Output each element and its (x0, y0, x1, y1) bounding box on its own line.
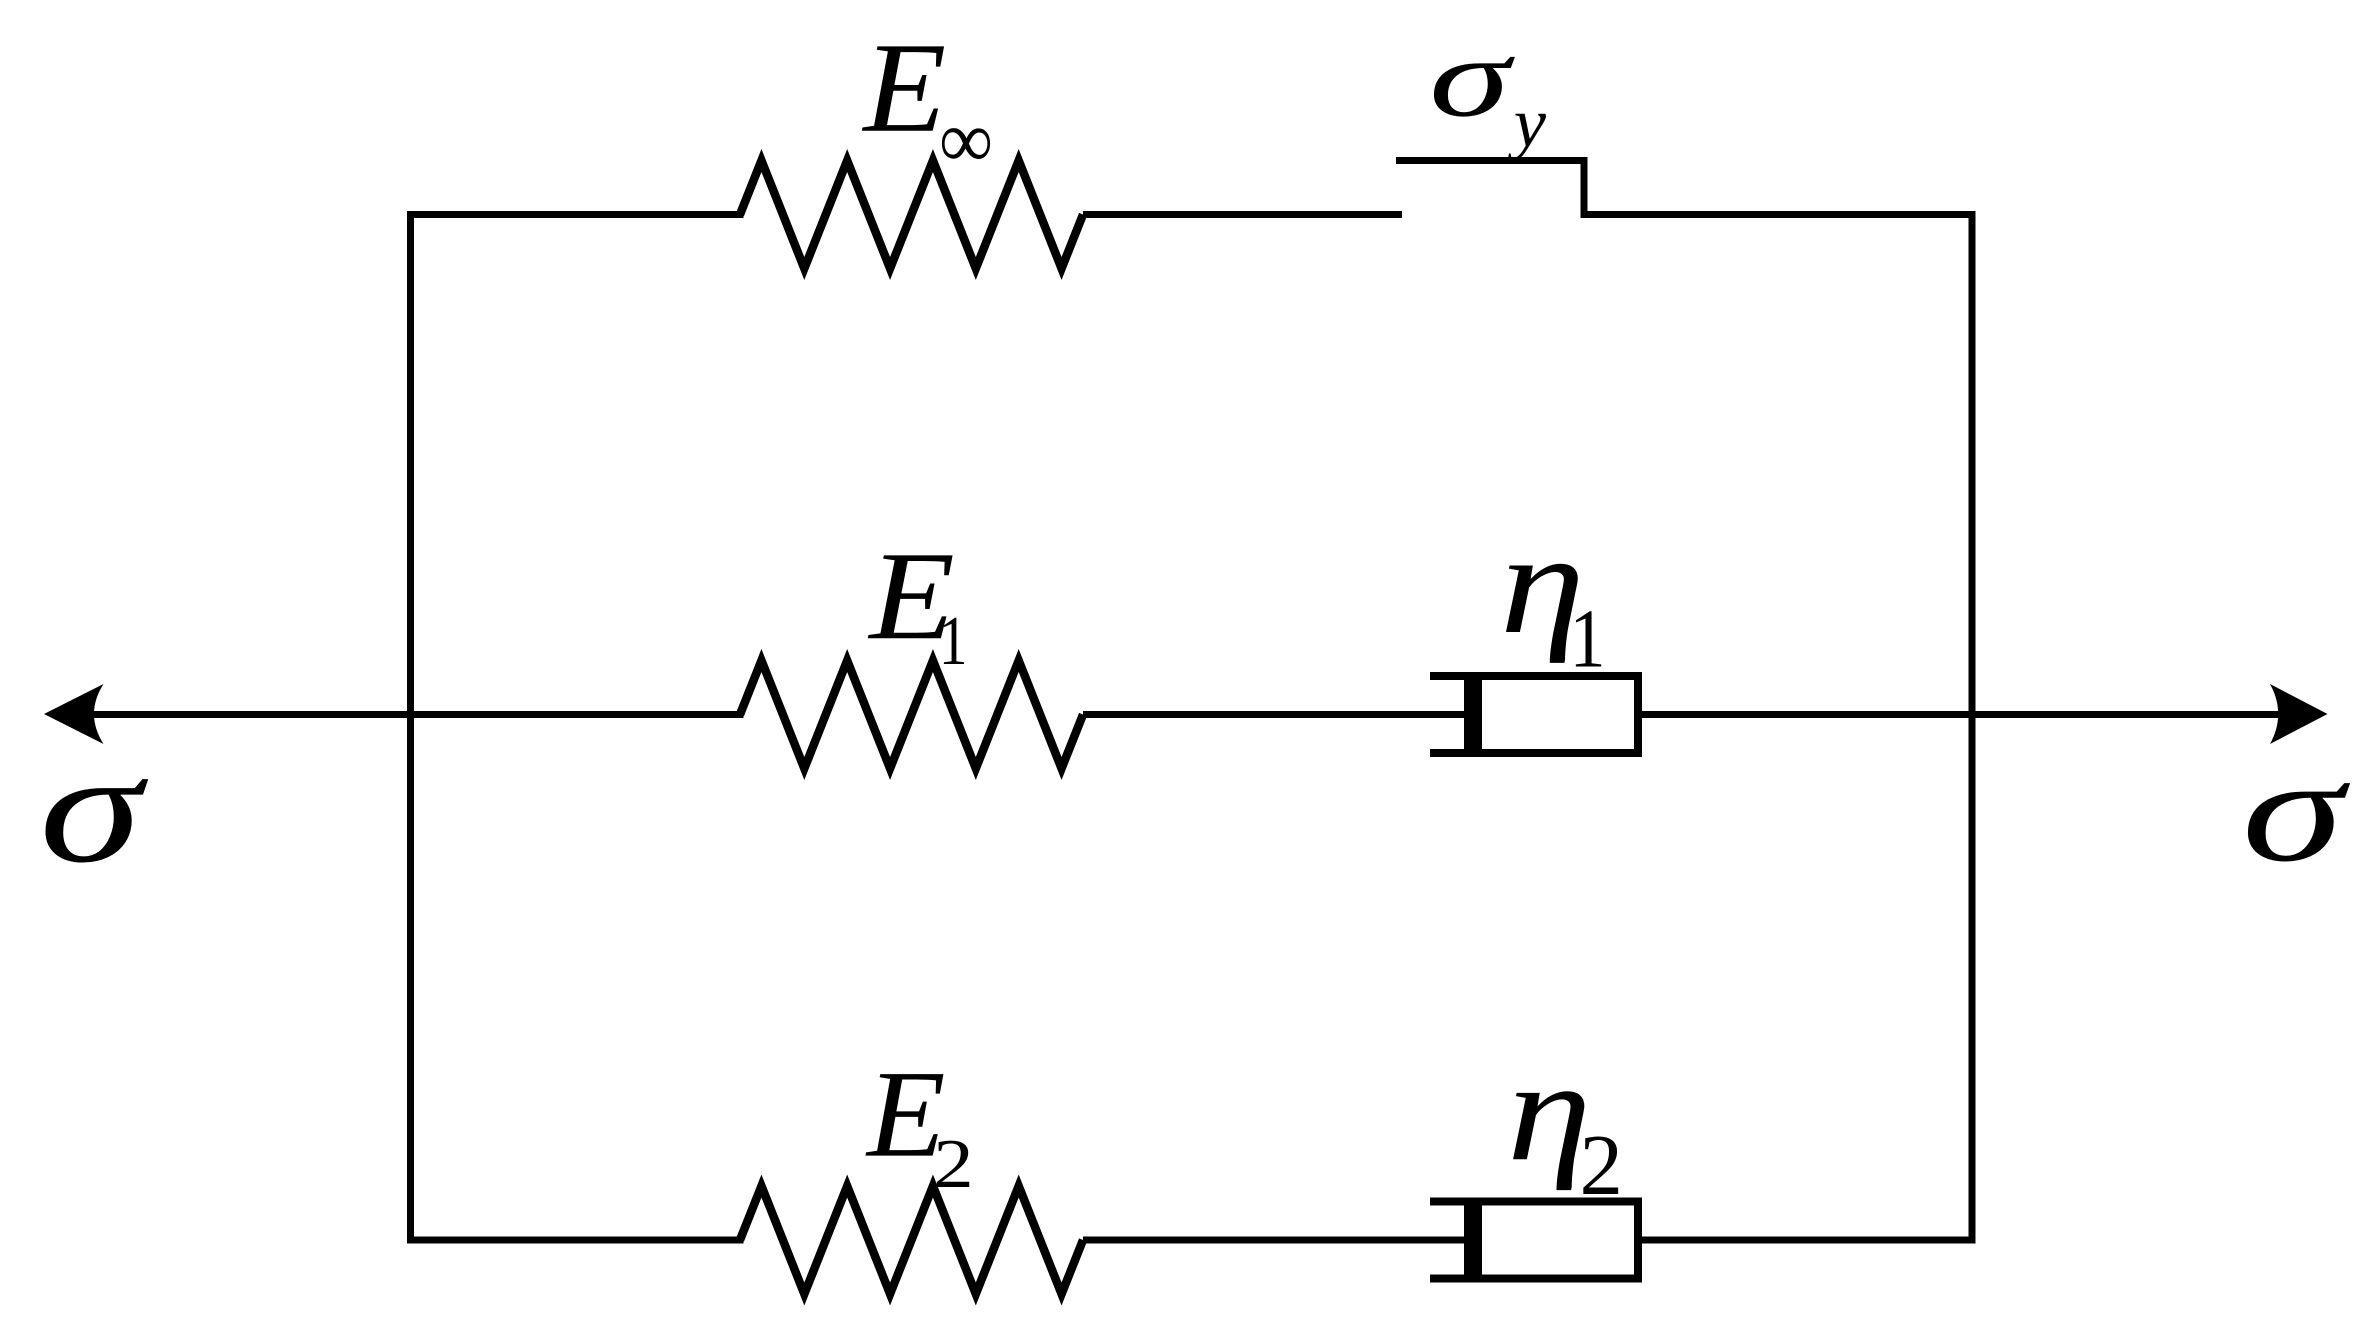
svg-text:σ: σ (1429, 15, 1515, 140)
wire: left vertical rail (407, 211, 414, 1244)
label E1: E (867, 525, 955, 665)
svg-text:2: 2 (1580, 1117, 1623, 1213)
svg-text:1: 1 (1570, 592, 1606, 685)
wire: top branch segment from spring to slider (1083, 211, 1402, 218)
label E-infinity: infinity subscript (940, 95, 992, 185)
wire: bottom branch piston rod (1083, 1237, 1466, 1244)
label sigma_y: sigma (1429, 15, 1515, 140)
svg-text:σ: σ (2242, 728, 2351, 893)
svg-text:y: y (1508, 85, 1547, 161)
label eta2: 2 subscript (1580, 1117, 1623, 1213)
svg-text:∞: ∞ (940, 95, 992, 185)
label sigma right (2242, 728, 2351, 893)
label eta1: 1 subscript (1570, 592, 1606, 685)
wire: top branch left segment (407, 211, 744, 218)
resistor (spring) E1 (740, 661, 1083, 769)
wire: bottom branch right segment (1638, 1237, 1976, 1244)
dashpot eta1: cylinder (1430, 676, 1638, 753)
friction slider sigma_y: step vertical (1581, 157, 1588, 218)
wire: bottom branch left segment (407, 1237, 744, 1244)
wire: middle branch left shaft (80, 711, 744, 718)
resistor (spring) E2 (740, 1186, 1083, 1294)
label eta1: eta (1500, 504, 1585, 664)
label E-infinity: E (861, 16, 946, 159)
label E1: 1 subscript (939, 602, 968, 680)
wire: middle branch piston rod (1083, 711, 1466, 718)
svg-text:E: E (861, 16, 946, 159)
wire: right vertical rail (1969, 211, 1976, 1243)
friction slider sigma_y: upper plate (1396, 157, 1588, 164)
svg-text:2: 2 (933, 1125, 973, 1203)
arrowhead left (stress direction) (44, 684, 104, 744)
svg-text:σ: σ (39, 719, 148, 895)
wire: middle branch right segment (1638, 711, 2285, 718)
wire: top branch right segment (slider to right rail) (1581, 211, 1976, 218)
label E2: E (865, 1045, 946, 1183)
label E2: 2 subscript (933, 1125, 973, 1203)
label sigma_y: y subscript (1508, 85, 1547, 161)
label eta2: eta (1507, 1031, 1591, 1191)
svg-text:1: 1 (939, 602, 968, 680)
dashpot eta2: piston plate (1464, 1205, 1482, 1275)
dashpot eta2: cylinder (1430, 1202, 1638, 1279)
arrowhead right (stress direction) (2270, 684, 2328, 744)
dashpot eta1: piston plate (1464, 680, 1482, 750)
resistor (spring) E-infinity (740, 161, 1083, 269)
label sigma left (39, 719, 148, 895)
